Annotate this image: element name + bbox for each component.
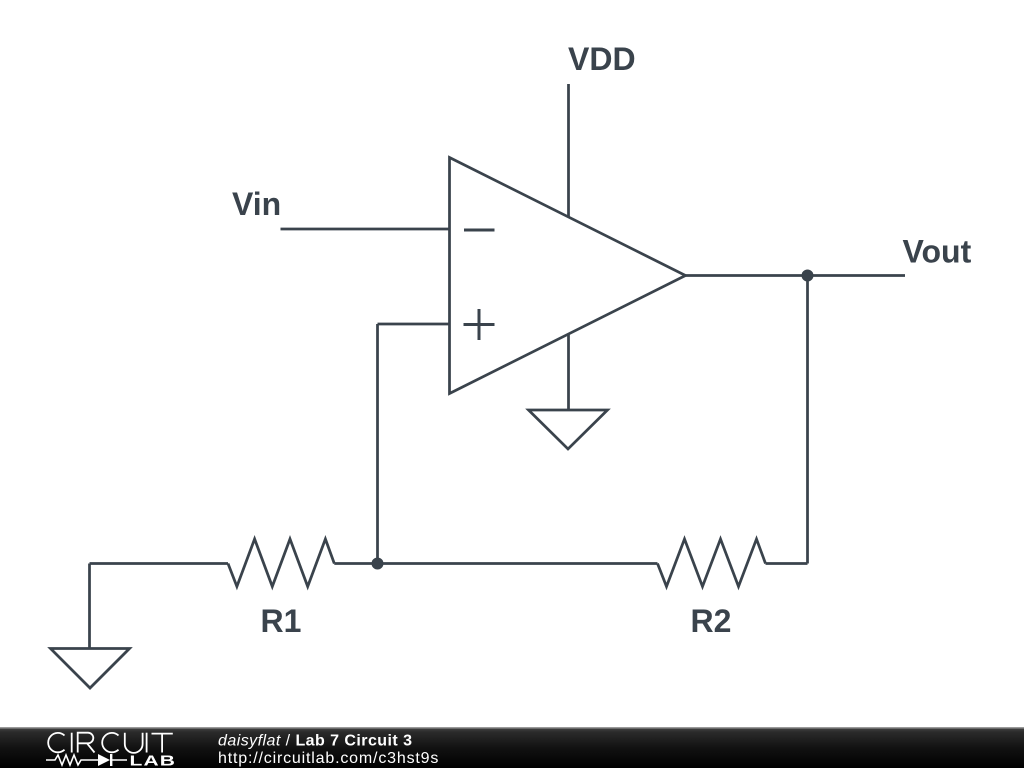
wire Vin to inverting input (281, 228, 450, 231)
wire output (686, 274, 906, 277)
logo letter C1 (48, 733, 64, 752)
ground symbol bottom left (51, 649, 130, 689)
wire op-amp ground stem (567, 334, 570, 410)
logo letter I2 (146, 733, 148, 753)
wire R2 to output feedback (766, 562, 808, 565)
wire output feedback vertical (806, 276, 809, 564)
logo letter U (125, 733, 143, 753)
logo diode triangle (98, 754, 110, 766)
footer bar top highlight (0, 727, 1024, 729)
resistor R1 zigzag (228, 539, 334, 587)
schematic group (51, 84, 906, 688)
svg-text:http://circuitlab.com/c3hst9s: http://circuitlab.com/c3hst9s (218, 750, 439, 767)
logo diode bar (110, 754, 112, 766)
junction node A dot (372, 558, 384, 570)
ground symbol under op-amp (529, 410, 608, 449)
svg-text:LAB: LAB (130, 752, 176, 768)
logo letter C2 (102, 733, 118, 752)
svg-text:R1: R1 (261, 603, 302, 639)
junction output node dot (802, 270, 814, 282)
svg-text:VDD: VDD (568, 41, 636, 77)
logo letter T (152, 734, 173, 753)
svg-text:Vout: Vout (903, 234, 972, 270)
wire left ground to R1 (90, 562, 229, 565)
logo CIRCUIT wordmark (48, 733, 173, 753)
svg-text:Vin: Vin (232, 186, 281, 222)
op-amp U1 triangle (450, 158, 686, 394)
wire R1 to node A (334, 562, 657, 565)
op-amp minus input symbol (464, 229, 495, 232)
wire non-inverting input horizontal (378, 323, 450, 326)
svg-text:R2: R2 (691, 603, 732, 639)
logo letter R (78, 733, 95, 753)
wire left ground vertical (88, 564, 91, 649)
logo letter I1 (71, 733, 73, 753)
wire feedback vertical (376, 324, 379, 564)
op-amp plus input symbol (464, 309, 495, 340)
node VDD wire (567, 84, 570, 217)
logo waveform resistor and diode (46, 755, 127, 765)
svg-text:daisyflat / Lab 7 Circuit 3: daisyflat / Lab 7 Circuit 3 (218, 733, 412, 750)
resistor R2 zigzag (658, 539, 766, 587)
